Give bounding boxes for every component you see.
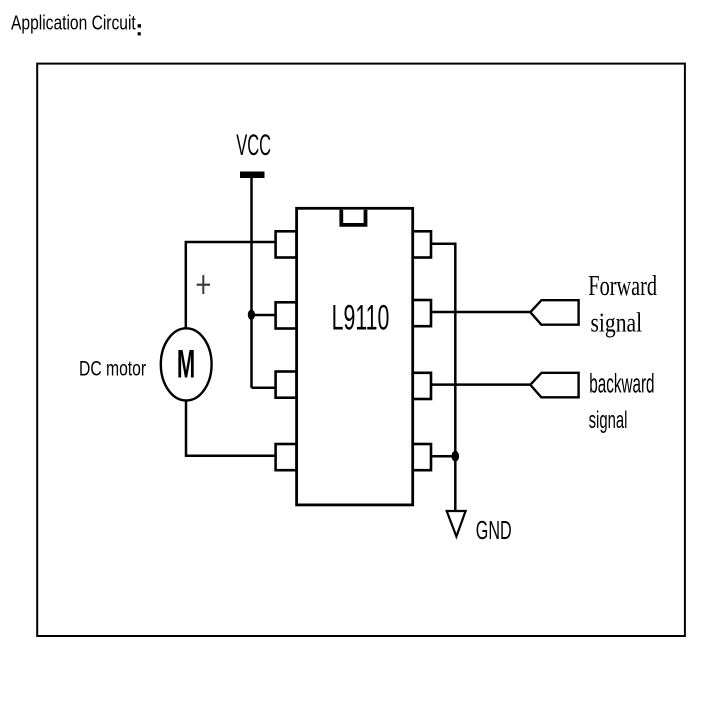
- pin 3: [276, 372, 297, 398]
- power symbol VCC bar: [240, 172, 265, 179]
- net label GND: [476, 515, 512, 545]
- title "Application Circuit": [11, 12, 141, 36]
- ground symbol: [447, 511, 466, 537]
- svg-text:M: M: [177, 341, 195, 386]
- wire pin 6 to forward signal tag: [431, 311, 530, 314]
- svg-text:VCC: VCC: [236, 129, 271, 162]
- wire pin 5 to ground rail: [431, 244, 455, 510]
- label signal (forward): [591, 308, 643, 338]
- IC orientation notch: [341, 210, 365, 225]
- pin 2: [276, 302, 297, 328]
- label signal (backward): [589, 408, 628, 434]
- wire pin 1 to motor top: [186, 242, 277, 329]
- pin 1: [276, 231, 297, 257]
- net label VCC: [236, 129, 271, 162]
- polarity plus sign: [197, 275, 210, 294]
- pin 6: [412, 300, 431, 326]
- svg-text:signal: signal: [591, 308, 643, 338]
- svg-text:DC motor: DC motor: [79, 356, 146, 380]
- wire VCC to pin 3: [252, 387, 278, 390]
- border frame of application circuit drawing: [37, 64, 685, 636]
- svg-text:GND: GND: [476, 515, 512, 545]
- pin 7: [412, 373, 431, 399]
- junction dot at VCC / pin 2: [248, 310, 255, 320]
- svg-text:Application Circuit: Application Circuit: [11, 12, 136, 34]
- wire motor bottom to pin 4: [186, 400, 277, 456]
- wire VCC stem vertical: [250, 178, 253, 388]
- label backward: [589, 368, 654, 399]
- svg-text:L9110: L9110: [332, 299, 390, 338]
- junction dot at pin 8 / ground rail: [452, 451, 460, 462]
- IC value label L9110: [332, 299, 390, 338]
- op IC U1 L9110 body: [297, 208, 413, 505]
- forward signal tag: [530, 300, 578, 325]
- backward signal tag: [530, 373, 578, 398]
- pin 4: [276, 444, 297, 470]
- label Forward: [588, 271, 657, 302]
- svg-text:backward: backward: [589, 368, 654, 399]
- wire pin 7 to backward signal tag: [431, 383, 530, 386]
- svg-text:Forward: Forward: [588, 271, 657, 302]
- wire pin 8 to ground rail: [431, 455, 455, 458]
- pin 5: [412, 231, 431, 257]
- motor M1 DC motor circle: [161, 328, 212, 400]
- pin 8: [412, 444, 431, 470]
- label DC motor: [79, 356, 146, 380]
- svg-text:signal: signal: [589, 408, 628, 434]
- wire VCC to pin 2: [252, 314, 278, 317]
